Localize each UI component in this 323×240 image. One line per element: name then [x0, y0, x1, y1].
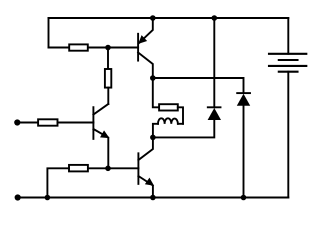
- transistor Q3 (NPN output) base bar: [137, 153, 139, 184]
- wire bottom rail: [18, 197, 289, 199]
- transistor Q2 emitter lead: [93, 129, 108, 168]
- wire L1 left lead down to node C: [153, 124, 158, 138]
- transistor Q3 emitter arrow (NPN): [146, 179, 153, 185]
- wire node B down to R3: [153, 78, 159, 107]
- wire D2 anode to bottom rail: [243, 106, 245, 198]
- wire R4 left lead and corner down: [47, 168, 69, 197]
- transistor Q3 collector lead: [138, 137, 153, 160]
- resistor R4 (bottom): [69, 165, 88, 172]
- transistor Q2 (NPN driver) base bar: [92, 107, 94, 139]
- wire battery bottom lead: [287, 72, 289, 198]
- diode D1 cathode bar: [208, 106, 221, 108]
- resistor R1 (top feedback): [69, 44, 88, 50]
- input terminal 1 dot: [14, 119, 20, 125]
- input terminal 2 dot: [15, 194, 21, 200]
- diode D2 cathode bar: [237, 92, 250, 94]
- diode D1 triangle: [208, 108, 221, 120]
- wire top row horizontal to Q1 base: [49, 47, 139, 49]
- node D2 bottom rail junction dot: [241, 195, 247, 201]
- transistor Q1 collector lead: [138, 53, 153, 79]
- wire R1b to Q2 base: [58, 122, 94, 124]
- diode D2 triangle: [237, 94, 250, 106]
- node A junction dot (R2 top): [105, 45, 111, 51]
- node B junction dot (Q1 collector / bootstrap): [150, 75, 156, 81]
- inductor L1 coil: [158, 118, 178, 123]
- wire node B to D2 corner: [153, 78, 244, 93]
- battery BT1 plate long top: [269, 53, 306, 55]
- wire Q3 base row: [88, 167, 138, 169]
- battery BT1 plate long bottom: [269, 65, 306, 67]
- transistor Q2 emitter arrow (NPN): [101, 131, 108, 137]
- node C junction dot (L1 / D1 / Q3 collector): [150, 135, 156, 141]
- wire top-left vertical: [48, 18, 50, 48]
- transistor Q1 emitter arrow (PNP, points to base): [139, 36, 146, 43]
- battery BT1 plate short bottom: [279, 71, 298, 73]
- resistor R2 (vertical): [105, 69, 111, 88]
- wire L1 right lead: [178, 123, 183, 125]
- node Q2 emitter junction dot: [105, 166, 111, 172]
- transistor Q1 (PNP) base bar: [137, 34, 139, 61]
- resistor R1b (input): [38, 119, 57, 125]
- transistor Q1 emitter lead: [139, 18, 153, 43]
- transistor Q3 emitter lead: [138, 176, 153, 198]
- wire top rail: [49, 17, 289, 19]
- wire node C to D1 anode: [153, 120, 214, 137]
- node bottom-left junction dot: [45, 195, 51, 201]
- wire R2 bottom lead to Q2 collector: [107, 88, 109, 104]
- node Q1 emitter top rail junction dot: [150, 15, 156, 21]
- resistor R3 (horizontal): [159, 104, 178, 110]
- wire R3 right lead down: [178, 107, 183, 124]
- wire input 1 to R1b: [17, 122, 38, 124]
- node Q3 emitter bottom rail junction dot: [150, 195, 156, 201]
- transistor Q2 collector lead: [93, 104, 108, 115]
- wire R2 top lead: [107, 48, 109, 70]
- node D1 top rail junction dot: [212, 15, 218, 21]
- wire battery top lead: [287, 18, 289, 54]
- battery BT1 plate short: [279, 59, 298, 61]
- wire D1 cathode to top rail: [213, 18, 215, 107]
